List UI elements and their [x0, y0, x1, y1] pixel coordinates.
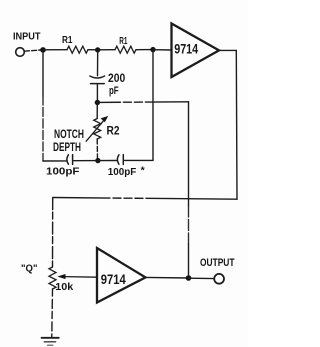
svg-text:"Q": "Q"	[21, 264, 38, 275]
wire U2 output to output node	[146, 276, 189, 279]
node N junction	[95, 100, 100, 105]
capacitor C3 100pF left plate	[117, 155, 119, 164]
wire C1 to node N	[96, 84, 98, 103]
wire node M to R1 second	[98, 49, 115, 51]
wire bottom rail left segment	[43, 160, 66, 162]
wire left vertical lower (faint in scan)	[42, 96, 44, 161]
wire rail C3 to right corner	[125, 159, 154, 161]
wire Q pot top vertical	[52, 198, 54, 267]
capacitor C2 100pF right plate	[72, 155, 74, 165]
svg-text:200: 200	[108, 73, 125, 85]
svg-text:10k: 10k	[55, 282, 73, 293]
svg-text:INPUT: INPUT	[13, 31, 41, 42]
svg-text:OUTPUT: OUTPUT	[200, 257, 235, 269]
wire rail node B to C3	[98, 160, 117, 162]
wire bootstrap vertical lower	[188, 206, 190, 244]
node M junction	[95, 47, 100, 52]
svg-text:R1: R1	[119, 36, 128, 47]
wire R1 to node M	[88, 49, 98, 51]
ground	[42, 337, 59, 339]
capacitor C1 200pF top plate	[90, 76, 105, 78]
wire pot bottom to ground	[51, 289, 54, 337]
op-amp U2	[97, 248, 146, 303]
potentiometer R2 notch depth	[94, 119, 101, 140]
svg-text:pF: pF	[109, 85, 119, 97]
wire node M down to C1	[97, 50, 99, 76]
resistor R1	[67, 46, 88, 53]
wire feedback horizontal to Q pot	[53, 198, 237, 200]
capacitor C3 100pF right plate	[122, 155, 124, 165]
capacitor C2 100pF left plate	[67, 155, 69, 164]
wire node P to op-amp U1 input	[153, 49, 172, 51]
output node junction	[186, 275, 192, 281]
node B junction	[95, 158, 100, 163]
svg-text:9714: 9714	[174, 41, 198, 57]
svg-text:*: *	[141, 165, 146, 177]
output terminal	[214, 274, 224, 284]
potentiometer Q 10k	[49, 267, 56, 289]
wire left vertical node I to bottom rail	[42, 50, 44, 96]
svg-text:R2: R2	[107, 124, 120, 138]
wire node N to R2	[96, 103, 98, 119]
R2 wiper arrow	[86, 120, 104, 142]
wire output node to terminal	[189, 277, 215, 279]
wire right vertical rail to node P	[152, 50, 154, 161]
resistor R1 (second, twin-T)	[115, 46, 136, 53]
op-amp U1	[172, 24, 220, 78]
svg-text:R1: R1	[62, 35, 73, 46]
wire bootstrap vertical to output node	[188, 102, 190, 206]
node I junction	[40, 47, 46, 53]
wire U1 output right	[219, 49, 236, 51]
wire R1 second to node P	[136, 49, 153, 51]
svg-text:100pF: 100pF	[108, 167, 137, 178]
wire input terminal to node I	[24, 50, 40, 51]
Q pot wiper arrow	[64, 276, 97, 279]
wire node N to bootstrap corner	[97, 101, 188, 104]
node P junction	[150, 47, 155, 52]
svg-text:NOTCH: NOTCH	[54, 128, 84, 141]
svg-text:100pF: 100pF	[46, 166, 80, 177]
svg-text:9714: 9714	[101, 272, 126, 287]
wire rail C2 to node B	[74, 160, 98, 162]
wire feedback right vertical	[235, 50, 238, 199]
capacitor C1 200pF bottom plate	[91, 83, 105, 85]
wire node I to R1	[43, 49, 67, 51]
wire R2 to node B	[96, 139, 98, 161]
svg-text:DEPTH: DEPTH	[53, 141, 81, 154]
input terminal	[16, 48, 25, 57]
